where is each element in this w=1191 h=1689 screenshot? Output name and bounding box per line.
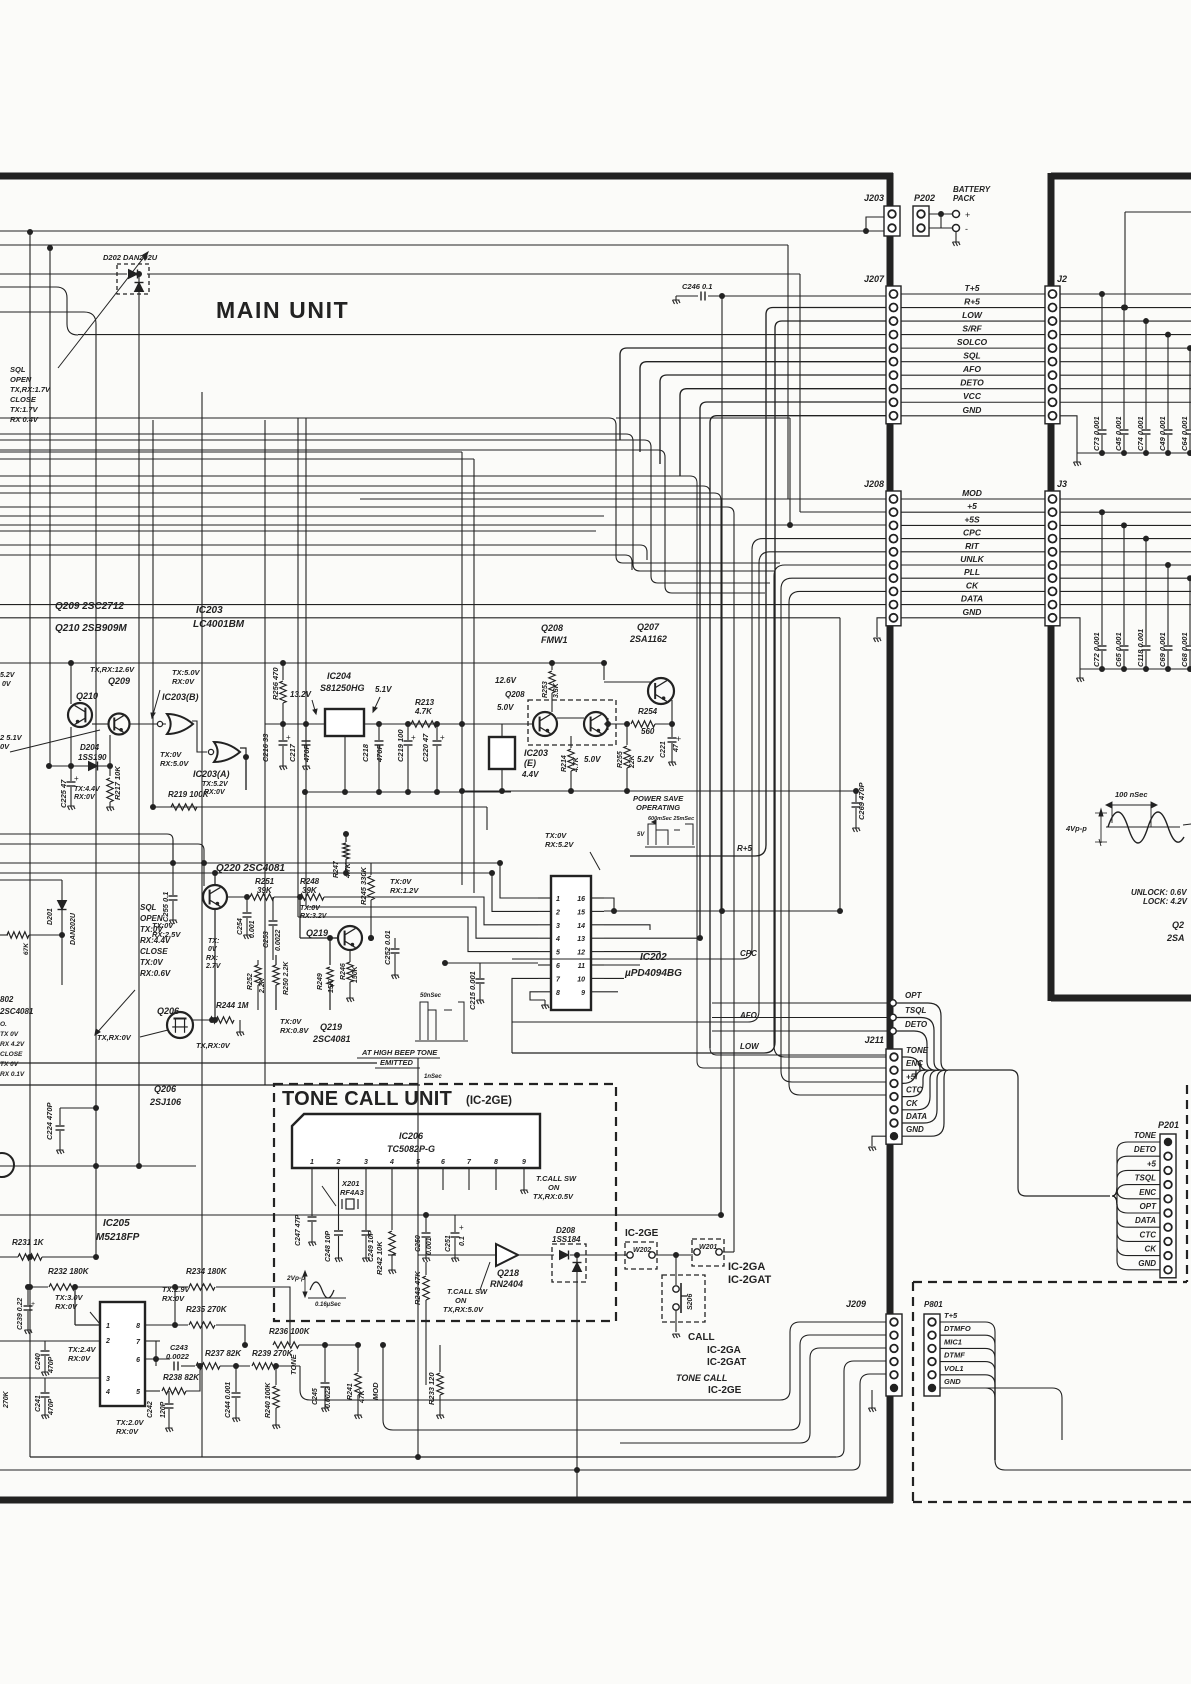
svg-text:+: + <box>74 774 79 783</box>
svg-text:Q209 2SC2712: Q209 2SC2712 <box>55 601 124 612</box>
svg-text:4: 4 <box>389 1159 394 1166</box>
svg-text:TONE CALL UNIT: TONE CALL UNIT <box>282 1088 452 1110</box>
P801 fan right <box>940 1322 995 1460</box>
svg-text:RX 4.2V: RX 4.2V <box>0 1041 25 1048</box>
connector J3 <box>1045 491 1060 626</box>
svg-text:GND: GND <box>963 405 982 415</box>
transistor Q207 <box>648 678 674 704</box>
svg-text:AFO: AFO <box>739 1011 758 1020</box>
svg-text:R/W 180K: R/W 180K <box>0 1267 2 1300</box>
svg-text:CTC: CTC <box>1140 1230 1157 1239</box>
svg-text:R252: R252 <box>247 973 254 990</box>
svg-text:TONE: TONE <box>1134 1131 1157 1140</box>
svg-text:IC-2GAT: IC-2GAT <box>707 1357 746 1368</box>
5.0V rail under Q208 <box>462 723 533 725</box>
svg-text:TX,RX:0V: TX,RX:0V <box>196 1041 231 1050</box>
svg-text:J207: J207 <box>864 274 885 284</box>
svg-text:TX:2.9V: TX:2.9V <box>162 1285 191 1294</box>
svg-text:TX:1.7V: TX:1.7V <box>10 405 39 414</box>
svg-text:TX:0V: TX:0V <box>280 1017 302 1026</box>
svg-text:C239 0.22: C239 0.22 <box>17 1298 24 1330</box>
svg-text:GND: GND <box>944 1377 961 1386</box>
TONE CALL UNIT dashed box <box>274 1084 616 1321</box>
svg-text:TONE: TONE <box>289 1353 298 1375</box>
svg-text:802: 802 <box>0 995 14 1004</box>
svg-text:M5218FP: M5218FP <box>96 1232 140 1243</box>
svg-text:R242 10K: R242 10K <box>375 1241 384 1275</box>
W201 <box>692 1239 724 1266</box>
svg-text:LOCK: 4.2V: LOCK: 4.2V <box>1143 897 1188 906</box>
connector J208 <box>886 491 901 626</box>
svg-text:3: 3 <box>106 1376 110 1383</box>
svg-text:Q218: Q218 <box>497 1268 519 1278</box>
svg-text:2.7V: 2.7V <box>205 963 222 970</box>
svg-text:FMW1: FMW1 <box>541 635 568 645</box>
svg-text:2SC4081: 2SC4081 <box>0 1007 34 1016</box>
svg-text:IC205: IC205 <box>103 1218 130 1229</box>
svg-text:TONE: TONE <box>906 1046 929 1055</box>
svg-text:12.6V: 12.6V <box>495 676 517 685</box>
svg-text:+: + <box>286 733 291 742</box>
svg-text:Q206: Q206 <box>157 1006 180 1016</box>
svg-text:1: 1 <box>556 896 560 903</box>
svg-text:0.001: 0.001 <box>426 1237 433 1255</box>
J211 GND ground <box>872 1136 886 1146</box>
svg-text:R255: R255 <box>617 751 624 768</box>
svg-text:T+5: T+5 <box>944 1311 958 1320</box>
svg-text:TX:3.0V: TX:3.0V <box>55 1293 84 1302</box>
svg-text:0.0022: 0.0022 <box>275 929 282 951</box>
svg-text:R235 270K: R235 270K <box>186 1305 228 1314</box>
svg-text:TX:0V: TX:0V <box>390 877 412 886</box>
J208 left wires <box>360 498 886 500</box>
svg-text:+: + <box>965 210 970 220</box>
transistor Q220 <box>203 885 227 909</box>
long rails y1063/y1085 <box>0 1062 377 1064</box>
svg-text:Q219: Q219 <box>320 1022 342 1032</box>
svg-text:DETO: DETO <box>1134 1145 1157 1154</box>
svg-text:D208: D208 <box>556 1226 576 1235</box>
svg-text:W201: W201 <box>699 1244 717 1251</box>
svg-text:R2.: R2. <box>0 909 2 920</box>
MAIN UNIT border <box>0 173 893 180</box>
svg-text:GND: GND <box>1138 1259 1156 1268</box>
svg-text:5.0V: 5.0V <box>497 703 514 712</box>
svg-text:IC202: IC202 <box>640 952 667 963</box>
svg-text:RX:5.0V: RX:5.0V <box>160 759 189 768</box>
svg-text:C254: C254 <box>237 918 244 935</box>
svg-text:MOD: MOD <box>371 1382 380 1400</box>
svg-text:BATTERY: BATTERY <box>953 185 991 194</box>
svg-text:Q219: Q219 <box>306 928 328 938</box>
svg-text:+: + <box>31 1301 35 1308</box>
svg-text:2SA1162: 2SA1162 <box>629 634 667 644</box>
svg-text:R214: R214 <box>561 755 568 772</box>
svg-text:TX:0V: TX:0V <box>545 831 567 840</box>
svg-text:R244 1M: R244 1M <box>216 1001 249 1010</box>
svg-text:R241: R241 <box>347 1383 354 1400</box>
svg-text:TX:0V: TX:0V <box>140 958 163 967</box>
svg-text:TX 0V: TX 0V <box>0 1031 19 1038</box>
caps C72 C65 C118 C69 C68 <box>1099 509 1105 515</box>
svg-text:TX:5.2V: TX:5.2V <box>202 781 229 788</box>
svg-text:1: 1 <box>106 1323 110 1330</box>
svg-text:S81250HG: S81250HG <box>320 683 365 693</box>
svg-text:+: + <box>440 733 445 742</box>
svg-text:TX:2.0V: TX:2.0V <box>116 1418 145 1427</box>
svg-text:13: 13 <box>577 936 585 943</box>
P801 GND wire down <box>940 1388 1062 1440</box>
svg-text:+5S: +5S <box>964 514 980 524</box>
svg-text:0.1: 0.1 <box>459 1236 466 1246</box>
svg-text:C253: C253 <box>263 931 270 948</box>
svg-text:8: 8 <box>556 990 560 997</box>
top rails <box>0 244 788 246</box>
beep waveform box <box>420 1002 464 1040</box>
svg-text:13.2V: 13.2V <box>290 690 312 699</box>
svg-text:R236 100K: R236 100K <box>269 1327 311 1336</box>
svg-text:1: 1 <box>310 1159 314 1166</box>
svg-text:6: 6 <box>136 1357 140 1364</box>
svg-text:TX,RX:5.0V: TX,RX:5.0V <box>443 1305 484 1314</box>
svg-text:D201: D201 <box>47 908 54 925</box>
J208-J3 signal wires <box>901 498 1045 500</box>
svg-text:CLOSE: CLOSE <box>10 395 37 404</box>
svg-text:TSQL: TSQL <box>905 1006 926 1015</box>
svg-text:C45 0.001: C45 0.001 <box>1114 416 1123 451</box>
svg-text:Q220 2SC4081: Q220 2SC4081 <box>216 863 285 874</box>
svg-text:POWER SAVE: POWER SAVE <box>633 794 684 803</box>
svg-text:R247: R247 <box>333 860 340 878</box>
svg-text:CK: CK <box>966 580 979 590</box>
J3 GND bend <box>1060 618 1080 669</box>
IC205 pin1 left wire <box>74 1287 76 1325</box>
S206 switch <box>662 1275 705 1322</box>
svg-text:C248 10P: C248 10P <box>325 1231 332 1262</box>
svg-text:5.2V: 5.2V <box>637 755 654 764</box>
svg-text:CALL: CALL <box>688 1332 715 1343</box>
bottom rail y1470 <box>0 1469 852 1471</box>
svg-text:J203: J203 <box>864 193 884 203</box>
svg-text:UNLK: UNLK <box>960 554 984 564</box>
svg-text:ON: ON <box>455 1296 467 1305</box>
svg-text:RX:4.4V: RX:4.4V <box>140 936 171 945</box>
svg-text:(E): (E) <box>524 758 536 768</box>
svg-text:+: + <box>411 733 416 742</box>
svg-text:µPD4094BG: µPD4094BG <box>624 968 682 979</box>
svg-text:TONE CALL: TONE CALL <box>676 1373 727 1383</box>
svg-text:0V: 0V <box>208 946 218 953</box>
svg-text:RIT: RIT <box>965 541 980 551</box>
dashed edge right of P201 <box>1186 1085 1188 1282</box>
svg-text:5.1V: 5.1V <box>375 685 392 694</box>
vertical rail x139 <box>138 292 140 1166</box>
svg-text:D204: D204 <box>80 743 100 752</box>
J207-J2 signal wires <box>901 293 1045 295</box>
svg-text:IC-2GAT: IC-2GAT <box>728 1274 771 1286</box>
svg-text:DTMFO: DTMFO <box>944 1324 971 1333</box>
J209 left wires <box>780 1322 886 1400</box>
svg-text:0V: 0V <box>0 742 10 751</box>
svg-text:OPT: OPT <box>905 991 923 1000</box>
svg-text:2: 2 <box>555 909 560 916</box>
svg-text:OPERATING: OPERATING <box>636 803 680 812</box>
svg-text:MIC1: MIC1 <box>944 1337 962 1346</box>
svg-text:PLL: PLL <box>964 567 980 577</box>
svg-text:2SJ106: 2SJ106 <box>149 1097 182 1107</box>
svg-text:RX:0.6V: RX:0.6V <box>140 969 171 978</box>
svg-text:470P: 470P <box>48 1356 55 1374</box>
svg-text:C244 0.001: C244 0.001 <box>225 1382 232 1418</box>
svg-text:Q207: Q207 <box>637 622 660 632</box>
svg-text:TX 0V: TX 0V <box>0 1061 19 1068</box>
svg-text:R238 82K: R238 82K <box>163 1373 200 1382</box>
svg-text:C269 470P: C269 470P <box>857 781 866 820</box>
right unit border <box>1051 173 1191 180</box>
svg-text:W202: W202 <box>633 1247 651 1254</box>
svg-text:GND: GND <box>906 1125 924 1134</box>
svg-text:S206: S206 <box>687 1294 694 1310</box>
svg-text:C118 0.001: C118 0.001 <box>1136 629 1145 667</box>
svg-text:12: 12 <box>577 950 585 957</box>
cable line to P201 <box>902 1069 948 1071</box>
left rails <box>29 232 31 1457</box>
right pin stubs <box>604 925 650 930</box>
svg-text:TX:0V: TX:0V <box>140 925 163 934</box>
svg-text:RX:1.2V: RX:1.2V <box>390 886 419 895</box>
svg-text:TX:0V: TX:0V <box>160 750 182 759</box>
svg-text:C218: C218 <box>361 743 370 762</box>
svg-text:R251: R251 <box>255 877 275 886</box>
svg-text:Q210 2SB909M: Q210 2SB909M <box>55 623 127 634</box>
bottom right dashed box <box>912 1282 914 1502</box>
svg-text:R246: R246 <box>340 963 347 980</box>
svg-text:CLOSE: CLOSE <box>0 1051 23 1058</box>
svg-text:R250 2.2K: R250 2.2K <box>283 961 290 995</box>
svg-text:TC5082P-G: TC5082P-G <box>387 1144 435 1154</box>
extra mid band lines <box>0 515 604 517</box>
svg-text:TX:: TX: <box>208 938 219 945</box>
svg-text:C69 0.001: C69 0.001 <box>1158 632 1167 667</box>
svg-text:CK: CK <box>906 1099 919 1108</box>
svg-text:+: + <box>676 734 681 744</box>
svg-text:ENC: ENC <box>1139 1188 1156 1197</box>
svg-text:100 nSec: 100 nSec <box>1115 790 1148 799</box>
svg-text:47: 47 <box>673 743 680 753</box>
svg-text:R248: R248 <box>300 877 320 886</box>
svg-text:+: + <box>459 1223 464 1232</box>
bottom rail y1457 <box>30 1456 836 1458</box>
svg-text:1nSec: 1nSec <box>424 1074 442 1080</box>
svg-text:0.0022: 0.0022 <box>325 1386 332 1408</box>
svg-text:(IC-2GE): (IC-2GE) <box>466 1095 512 1107</box>
svg-text:R219 100K: R219 100K <box>168 790 210 799</box>
svg-text:39K: 39K <box>302 886 318 895</box>
svg-text:3: 3 <box>556 923 560 930</box>
svg-text:470P: 470P <box>48 1398 55 1416</box>
connector J2 <box>1045 286 1060 424</box>
svg-text:6: 6 <box>556 963 560 970</box>
svg-text:PACK: PACK <box>953 194 976 203</box>
svg-text:TX:5.0V: TX:5.0V <box>172 668 201 677</box>
svg-text:50nSec: 50nSec <box>420 993 442 999</box>
svg-text:R254: R254 <box>638 707 658 716</box>
svg-text:R237 82K: R237 82K <box>205 1349 242 1358</box>
pin15 wire <box>604 910 840 912</box>
svg-text:C247 47P: C247 47P <box>295 1215 302 1246</box>
connector J203 <box>884 206 900 236</box>
svg-text:39K: 39K <box>257 886 273 895</box>
svg-text:C72 0.001: C72 0.001 <box>1092 632 1101 667</box>
svg-text:DAN202U: DAN202U <box>70 912 77 945</box>
svg-text:LOW: LOW <box>740 1042 760 1051</box>
svg-text:DETO: DETO <box>960 378 984 388</box>
svg-text:14: 14 <box>577 923 585 930</box>
svg-text:5V: 5V <box>637 832 645 838</box>
svg-text:IC203(A): IC203(A) <box>193 769 230 779</box>
svg-text:3.3K: 3.3K <box>553 682 560 698</box>
svg-text:2 5.1V: 2 5.1V <box>0 733 23 742</box>
svg-text:D202 DAN202U: D202 DAN202U <box>103 253 158 262</box>
svg-text:R+5: R+5 <box>737 844 752 853</box>
J2 GND bend to cap bus <box>1060 416 1077 453</box>
svg-text:4Vp-p: 4Vp-p <box>1065 824 1087 833</box>
svg-text:6: 6 <box>441 1159 445 1166</box>
svg-text:2: 2 <box>336 1159 341 1166</box>
corner wires top-left <box>0 287 78 335</box>
svg-text:DTMF: DTMF <box>944 1351 965 1360</box>
wires into OPT/TSQL/DETO from left <box>712 1002 890 1004</box>
svg-text:ON: ON <box>548 1183 560 1192</box>
connector J207 <box>886 286 901 424</box>
svg-text:LOW: LOW <box>962 310 983 320</box>
svg-text:C216 33: C216 33 <box>261 733 270 762</box>
svg-text:4.4V: 4.4V <box>521 770 539 779</box>
svg-text:IC-2GE: IC-2GE <box>625 1228 659 1239</box>
wires from TONE/MOD down-right <box>300 1390 780 1400</box>
svg-text:J209: J209 <box>846 1299 866 1309</box>
svg-text:1SS184: 1SS184 <box>552 1235 581 1244</box>
svg-text:TX:4.4V: TX:4.4V <box>74 786 101 793</box>
IC203(E) box <box>489 737 515 769</box>
svg-text:R239 270K: R239 270K <box>252 1349 294 1358</box>
P201 fan <box>1112 1142 1128 1196</box>
svg-text:J3: J3 <box>1057 479 1067 489</box>
svg-text:RX:0V: RX:0V <box>68 1354 91 1363</box>
svg-text:R217 10K: R217 10K <box>113 766 122 800</box>
svg-text:AFO: AFO <box>962 364 981 374</box>
svg-text:+5: +5 <box>1147 1159 1157 1168</box>
svg-text:0.16µSec: 0.16µSec <box>315 1302 341 1308</box>
IC202 uPD4094BG <box>551 876 591 1010</box>
svg-text:560: 560 <box>641 727 655 736</box>
svg-text:9: 9 <box>522 1159 526 1166</box>
svg-text:OPEN: OPEN <box>10 375 32 384</box>
svg-text:J211: J211 <box>865 1035 884 1045</box>
svg-text:TX:0V: TX:0V <box>300 905 321 912</box>
svg-text:CLOSE: CLOSE <box>140 947 168 956</box>
svg-text:RX:: RX: <box>206 955 218 962</box>
svg-text:C221: C221 <box>660 741 667 758</box>
svg-text:C64 0.001: C64 0.001 <box>1180 416 1189 451</box>
svg-text:IC203: IC203 <box>524 748 548 758</box>
svg-text:DATA: DATA <box>906 1112 927 1121</box>
rails y834/844 <box>0 834 173 863</box>
verticals to bottom rails <box>417 1058 419 1457</box>
svg-text:IC203: IC203 <box>196 605 223 616</box>
svg-text:RX 0.4V: RX 0.4V <box>10 415 39 424</box>
svg-text:4: 4 <box>555 936 560 943</box>
IC205 box <box>100 1302 145 1406</box>
svg-text:P202: P202 <box>914 193 935 203</box>
svg-text:DETO: DETO <box>905 1020 928 1029</box>
svg-text:2SA: 2SA <box>1166 933 1185 943</box>
J208 GND stub to ground <box>877 618 886 637</box>
svg-text:IC206: IC206 <box>399 1131 424 1141</box>
svg-text:VCC: VCC <box>963 391 982 401</box>
svg-text:IC203(B): IC203(B) <box>162 692 199 702</box>
svg-text:R249: R249 <box>317 973 324 990</box>
IC204 bottom stub <box>344 736 346 792</box>
svg-text:RF4A3: RF4A3 <box>340 1188 365 1197</box>
svg-text:8: 8 <box>494 1159 498 1166</box>
svg-text:C242: C242 <box>147 1401 154 1418</box>
svg-text:15: 15 <box>577 909 585 916</box>
svg-text:GND: GND <box>963 607 982 617</box>
svg-text:C225 47: C225 47 <box>59 779 68 808</box>
svg-text:O.: O. <box>0 1021 7 1028</box>
right box inner top wire <box>1125 211 1191 213</box>
svg-text:J208: J208 <box>864 479 884 489</box>
svg-text:RX:0V: RX:0V <box>74 794 96 801</box>
svg-text:Q208: Q208 <box>505 690 525 699</box>
IC202 pin wires <box>500 863 538 898</box>
svg-text:67K: 67K <box>23 942 30 955</box>
svg-text:9: 9 <box>581 990 585 997</box>
horizontal wires upper left zone <box>0 879 62 881</box>
svg-text:R256 470: R256 470 <box>271 667 280 700</box>
pin16 elbow <box>604 898 614 911</box>
svg-text:AT HIGH BEEP TONE: AT HIGH BEEP TONE <box>361 1048 438 1057</box>
svg-text:MAIN UNIT: MAIN UNIT <box>216 297 349 323</box>
svg-text:TSQL: TSQL <box>1135 1174 1156 1183</box>
svg-text:C74 0.001: C74 0.001 <box>1136 416 1145 451</box>
Q218 RN2404 <box>496 1244 518 1266</box>
svg-text:TX,RX:0V: TX,RX:0V <box>97 1033 132 1042</box>
svg-text:4: 4 <box>105 1389 110 1396</box>
svg-text:RX:0V: RX:0V <box>116 1427 139 1436</box>
svg-text:C65 0.001: C65 0.001 <box>1114 632 1123 667</box>
svg-text:CPC: CPC <box>963 528 982 538</box>
connector P202 <box>913 206 929 236</box>
long rail y791 <box>462 790 856 792</box>
svg-text:SQL: SQL <box>963 351 980 361</box>
svg-text:UNLOCK: 0.6V: UNLOCK: 0.6V <box>1131 888 1187 897</box>
svg-text:DATA: DATA <box>961 594 983 604</box>
svg-text:0.0022: 0.0022 <box>166 1352 190 1361</box>
svg-text:C220 47: C220 47 <box>421 733 430 762</box>
svg-text:LC4001BM: LC4001BM <box>193 619 245 630</box>
svg-text:R240 100K: R240 100K <box>265 1382 272 1418</box>
svg-text:OPT: OPT <box>1140 1202 1158 1211</box>
svg-text:10: 10 <box>577 976 585 983</box>
12.6V rail <box>0 662 604 664</box>
svg-text:Q210: Q210 <box>76 691 98 701</box>
svg-text:X201: X201 <box>341 1179 360 1188</box>
svg-text:R253: R253 <box>542 681 549 698</box>
svg-text:2: 2 <box>105 1338 110 1345</box>
wire y274 with D202 <box>0 273 127 275</box>
